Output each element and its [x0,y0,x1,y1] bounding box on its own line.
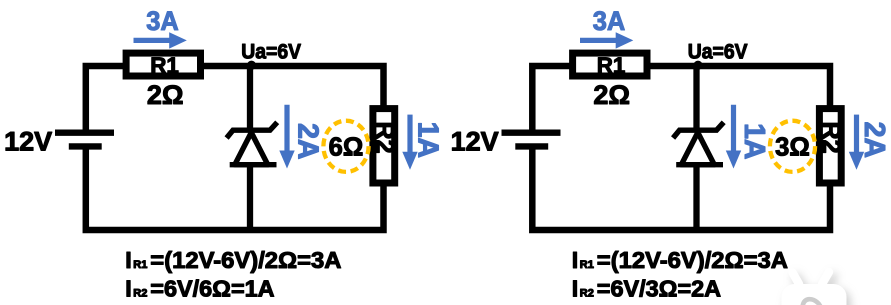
svg-text:2A: 2A [291,123,323,159]
svg-text:6Ω: 6Ω [329,133,364,161]
svg-text:I: I [125,276,131,302]
svg-text:I: I [572,276,578,302]
svg-text:1A: 1A [738,123,770,159]
svg-text:R2: R2 [133,288,147,300]
svg-text:R1: R1 [133,259,147,271]
svg-text:=(12V-6V)/2Ω=3A: =(12V-6V)/2Ω=3A [150,247,341,273]
svg-text:=6V/6Ω=1A: =6V/6Ω=1A [150,276,275,302]
svg-text:R1: R1 [580,259,594,271]
svg-text:3Ω: 3Ω [775,133,810,161]
svg-text:I: I [125,247,131,273]
svg-text:R2: R2 [580,288,594,300]
svg-text:1A: 1A [411,122,443,158]
svg-text:=(12V-6V)/2Ω=3A: =(12V-6V)/2Ω=3A [597,247,788,273]
svg-text:I: I [572,247,578,273]
svg-text:=6V/3Ω=2A: =6V/3Ω=2A [597,276,722,302]
svg-text:2A: 2A [858,122,890,158]
